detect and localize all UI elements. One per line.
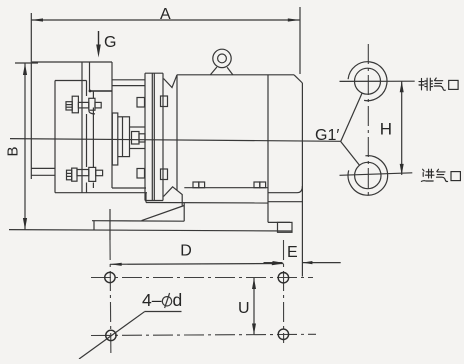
svg-text:E: E: [287, 244, 298, 261]
svg-text:U: U: [238, 300, 250, 317]
svg-text:d: d: [173, 290, 183, 310]
svg-text:D: D: [180, 243, 192, 260]
svg-text:G: G: [104, 34, 116, 51]
svg-text:A: A: [160, 6, 171, 23]
svg-text:G1′: G1′: [315, 127, 339, 144]
svg-text:H: H: [380, 120, 392, 139]
svg-text:B: B: [5, 146, 22, 156]
svg-text:4–: 4–: [142, 290, 162, 310]
